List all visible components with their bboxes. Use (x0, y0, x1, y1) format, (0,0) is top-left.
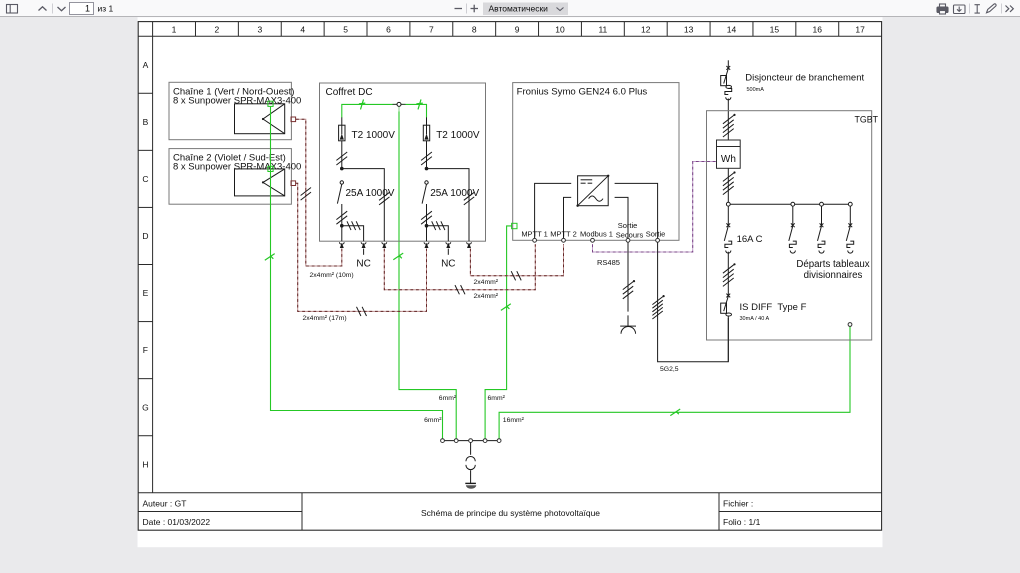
svg-text:Coffret DC: Coffret DC (326, 87, 373, 98)
breaker depart 792 (791, 223, 795, 227)
svg-text:25A 1000V: 25A 1000V (430, 188, 479, 199)
toolbar background (0, 0, 1020, 17)
svg-text:3: 3 (257, 24, 262, 34)
breaker 16A C (726, 223, 730, 227)
svg-text:Disjoncteur de branchement: Disjoncteur de branchement (745, 73, 864, 84)
wire PE from inverter (485, 226, 512, 439)
wire DC coffret to MPTT2 (470, 244, 563, 275)
PE conductor slash (670, 409, 680, 416)
pdf page (138, 17, 883, 547)
svg-text:MPTT 2: MPTT 2 (550, 230, 577, 239)
terminals right (424, 242, 429, 244)
toolbar page down chevron (58, 7, 66, 11)
svg-text:F: F (143, 345, 148, 355)
wire MPTT1 to inverter (535, 183, 572, 238)
inverter symbol U1 (578, 176, 609, 206)
bus node 792 (791, 202, 795, 206)
svg-text:17: 17 (855, 24, 865, 34)
wire MPTT2 to inverter (564, 197, 572, 238)
conductor slashes above meter (723, 115, 734, 123)
svg-text:Secours: Secours (616, 231, 644, 240)
supply stub (727, 60, 729, 67)
bus node 821 (820, 202, 824, 206)
svg-text:15: 15 (770, 24, 780, 34)
wire below arrester left (341, 141, 343, 169)
branch NC right (427, 226, 449, 242)
wire Sortie Secours (627, 242, 629, 311)
svg-text:10: 10 (555, 24, 565, 34)
svg-text:C: C (142, 174, 148, 184)
svg-text:2x4mm² (17m): 2x4mm² (17m) (303, 315, 347, 322)
svg-text:9: 9 (515, 24, 520, 34)
socket outlet symbol (627, 315, 629, 326)
breaker depart 821 (820, 223, 824, 227)
svg-text:NC: NC (441, 259, 455, 270)
svg-text:2: 2 (215, 24, 220, 34)
svg-text:500mA: 500mA (747, 87, 765, 93)
inverter terminals (533, 238, 537, 242)
svg-text:6mm²: 6mm² (424, 417, 442, 424)
toolbar save icon (954, 5, 966, 14)
svg-text:1: 1 (85, 4, 90, 14)
svg-text:Date : 01/03/2022: Date : 01/03/2022 (143, 517, 211, 527)
wire below meter (727, 168, 729, 204)
svg-text:12: 12 (641, 24, 651, 34)
svg-text:5G2,5: 5G2,5 (660, 366, 679, 373)
svg-text:NC: NC (356, 259, 370, 270)
svg-text:Sortie: Sortie (646, 230, 666, 239)
PV panel symbol PV1 (235, 104, 285, 134)
wire to 16A breaker (727, 206, 729, 225)
wire drop 821 (821, 206, 823, 225)
svg-text:из 1: из 1 (98, 4, 114, 14)
svg-text:8: 8 (472, 24, 477, 34)
svg-text:Wh: Wh (721, 154, 736, 165)
earth link (470, 443, 472, 455)
svg-text:Автоматически: Автоматически (489, 4, 549, 14)
svg-text:6mm²: 6mm² (488, 395, 506, 402)
svg-text:2x4mm²: 2x4mm² (474, 293, 499, 300)
earth bar node 442 (441, 439, 445, 443)
title block (138, 492, 881, 494)
svg-text:14: 14 (727, 24, 737, 34)
svg-text:30mA / 40 A: 30mA / 40 A (740, 316, 770, 322)
svg-text:A: A (143, 60, 149, 70)
toolbar printer icon (937, 4, 948, 14)
PE bus in coffret (342, 104, 427, 117)
svg-text:13: 13 (684, 24, 694, 34)
PE conductor slash (393, 253, 403, 260)
toolbar page number input (70, 3, 94, 15)
earth busbar (443, 440, 500, 442)
svg-text:16mm²: 16mm² (503, 417, 525, 424)
surge arrester T2 right (426, 117, 428, 125)
frame row ticks and letters (138, 92, 152, 94)
PV1 dc terminal (291, 117, 296, 122)
toolbar more tools chevrons (1006, 6, 1014, 12)
PE bus slash right (418, 99, 421, 109)
svg-text:B: B (143, 117, 149, 127)
PE conductor slash (265, 254, 275, 261)
svg-text:5: 5 (343, 24, 348, 34)
toolbar zoom out (455, 8, 463, 10)
wire Sortie 5G2,5 (658, 242, 729, 362)
wire drop 792 (792, 206, 794, 225)
fuse switch 25A right (425, 181, 428, 184)
toolbar zoom dropdown (483, 3, 568, 16)
frame border (138, 22, 881, 531)
wire PE from TGBT (499, 326, 850, 439)
NC stub left (363, 249, 365, 255)
svg-text:Folio : 1/1: Folio : 1/1 (723, 517, 761, 527)
PV string box Chaine 2 (169, 149, 291, 205)
earth bar node 499 (497, 439, 501, 443)
svg-text:E: E (143, 288, 149, 298)
svg-text:Auteur : GT: Auteur : GT (143, 499, 187, 509)
svg-text:16: 16 (813, 24, 823, 34)
svg-text:2x4mm² (10m): 2x4mm² (10m) (310, 272, 354, 279)
svg-text:T2 1000V: T2 1000V (436, 130, 480, 141)
Coffret DC box (320, 83, 486, 241)
svg-text:D: D (142, 231, 148, 241)
TGBT earth terminal (848, 323, 852, 327)
svg-text:16A C: 16A C (737, 234, 763, 245)
frame row label column line (152, 22, 154, 493)
svg-text:H: H (142, 459, 148, 469)
PV2 dc terminal (291, 181, 296, 186)
conductor count slashes (455, 285, 459, 294)
svg-text:MPTT 1: MPTT 1 (521, 230, 548, 239)
svg-text:RS485: RS485 (597, 258, 620, 267)
PV panel symbol PV2 (235, 169, 285, 196)
conductor count slashes (357, 307, 361, 316)
wire drop 850 (849, 206, 851, 225)
fuse switch 25A left (340, 181, 343, 184)
svg-text:4: 4 (300, 24, 305, 34)
junction node left (340, 167, 344, 171)
bus node main (726, 202, 730, 206)
svg-text:Modbus 1: Modbus 1 (580, 230, 613, 239)
svg-text:6mm²: 6mm² (439, 395, 457, 402)
svg-text:Sortie: Sortie (618, 221, 638, 230)
branch to output pole right (427, 169, 470, 242)
wire PE from Coffret DC (399, 106, 456, 439)
differential switch IS DIFF (726, 294, 730, 298)
svg-text:IS DIFF Type F: IS DIFF Type F (740, 302, 807, 313)
svg-text:8 x Sunpower SPR-MAX3-400: 8 x Sunpower SPR-MAX3-400 (173, 95, 301, 106)
svg-text:11: 11 (598, 24, 607, 34)
bus node 850 (848, 202, 852, 206)
svg-text:25A 1000V: 25A 1000V (346, 188, 395, 199)
toolbar text tool icon (975, 5, 980, 13)
toolbar separator (969, 4, 971, 14)
toolbar separator (1001, 4, 1003, 14)
PV string box Chaine 1 (169, 82, 291, 139)
wire RS485 Modbus to Wh meter (593, 162, 717, 253)
ground symbol (465, 482, 476, 484)
junction node 2 right (425, 224, 429, 228)
frame column ticks and numbers (194, 22, 196, 37)
earth bar node 470 (469, 439, 473, 443)
frame header row line (138, 35, 881, 37)
TGBT box (707, 111, 872, 340)
wire DC string 2 (296, 183, 427, 311)
NC stub right (447, 249, 449, 255)
disjoncteur de branchement Q0 (726, 66, 730, 70)
svg-text:T2 1000V: T2 1000V (352, 130, 396, 141)
inverter symbol corner dots (576, 205, 578, 207)
svg-text:7: 7 (429, 24, 434, 34)
toolbar draw icon (987, 4, 997, 13)
terminals left (339, 242, 344, 244)
junction node right (425, 167, 429, 171)
wire PE from PV frames (271, 107, 443, 439)
svg-text:G: G (142, 402, 149, 412)
toolbar zoom in (471, 8, 479, 10)
svg-text:2x4mm²: 2x4mm² (474, 279, 499, 286)
svg-text:Départs tableaux: Départs tableaux (796, 259, 869, 270)
toolbar separator (466, 4, 468, 14)
PE conductor slash (501, 304, 511, 311)
svg-text:divisionnaires: divisionnaires (804, 270, 863, 281)
wire inverter to Sortie (615, 183, 658, 238)
wire below arrester right (426, 141, 428, 169)
wire DC string 1 (296, 119, 342, 266)
surge arrester T2 left (341, 117, 343, 125)
junction node 2 left (340, 224, 344, 228)
toolbar sidebar toggle icon (7, 5, 18, 14)
PV1 earth terminal (268, 101, 273, 106)
earth bar node 485 (483, 439, 487, 443)
toolbar separator (52, 4, 54, 14)
PV2 earth terminal (268, 166, 273, 171)
PE bus node (393, 103, 406, 105)
wire DC coffret to MPTT1 (384, 244, 535, 289)
wire inverter to Sortie Secours (615, 197, 628, 238)
conductor count slashes (301, 188, 311, 196)
svg-text:Fronius Symo GEN24 6.0 Plus: Fronius Symo GEN24 6.0 Plus (517, 86, 648, 97)
bus bar (728, 203, 850, 205)
svg-text:Fichier :: Fichier : (723, 499, 753, 509)
kWh meter Wh (717, 140, 741, 168)
branch to output pole left (342, 169, 385, 242)
conductor count slashes (511, 271, 515, 280)
svg-text:6: 6 (386, 24, 391, 34)
inverter PE terminal (512, 223, 517, 228)
PE bus slash left (361, 99, 364, 109)
toolbar page up chevron (39, 7, 47, 11)
branch NC left (342, 226, 364, 242)
svg-text:1: 1 (172, 24, 177, 34)
svg-text:Schéma de principe du système: Schéma de principe du système photovolta… (421, 508, 600, 518)
earth bar node 456 (454, 439, 458, 443)
svg-text:TGBT: TGBT (855, 115, 879, 125)
breaker depart 850 (848, 223, 852, 227)
inverter box Fronius (513, 83, 679, 241)
